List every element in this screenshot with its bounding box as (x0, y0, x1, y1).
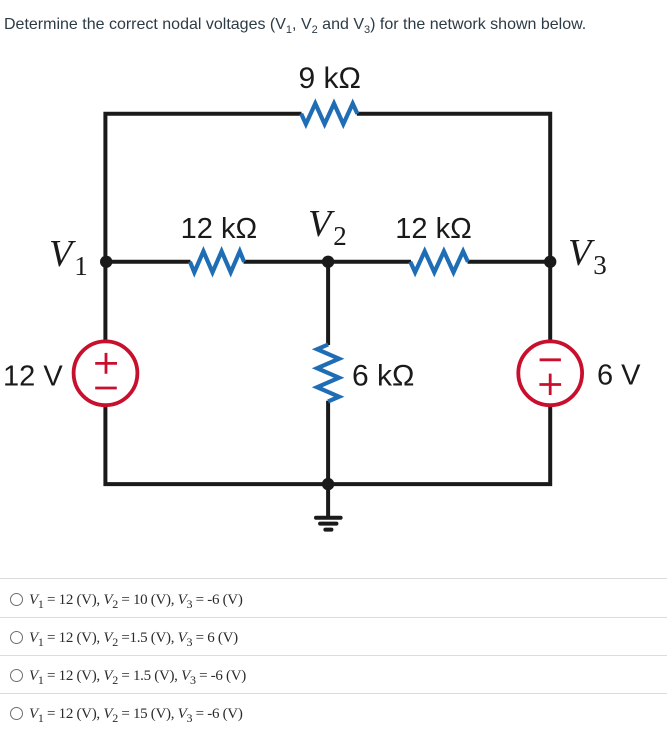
svg-text:6 kΩ: 6 kΩ (352, 360, 414, 393)
resistor 12k left zigzag (190, 251, 244, 272)
voltage source 12V plus (95, 353, 117, 374)
node V1 dot (100, 256, 112, 268)
svg-text:V1: V1 (49, 233, 88, 281)
voltage source 6V circle (518, 341, 582, 405)
label 6 kOhm (352, 360, 414, 393)
wire ground stub (326, 484, 330, 516)
resistor 12k right zigzag (410, 251, 468, 272)
wire top-left corner run (105, 114, 301, 341)
svg-text:12 kΩ: 12 kΩ (395, 213, 472, 245)
node label V1 (49, 233, 88, 281)
wire V2 branch upper (326, 262, 330, 345)
voltage source 6V plus (539, 374, 561, 395)
label 12 V (3, 360, 63, 392)
svg-text:V3: V3 (568, 232, 607, 280)
wire middle left (105, 260, 190, 264)
svg-text:12 kΩ: 12 kΩ (181, 213, 258, 245)
label 12 kOhm right (395, 213, 472, 245)
ground (316, 518, 341, 530)
node V2 dot (322, 256, 334, 268)
svg-text:V2: V2 (308, 203, 347, 251)
wire middle center (244, 260, 412, 264)
node ground junction dot (322, 478, 334, 490)
voltage source 6V minus (540, 358, 561, 361)
voltage source 12V circle (74, 341, 138, 405)
resistor 9k zigzag (301, 104, 357, 125)
wire bottom loop (105, 406, 550, 484)
node V3 dot (544, 256, 556, 268)
node label V2 (308, 203, 347, 251)
svg-text:6 V: 6 V (597, 360, 641, 392)
label 6 V (597, 360, 641, 392)
wire V2 branch lower (326, 401, 330, 484)
voltage source 12V minus (95, 387, 117, 390)
resistor 6k vertical zigzag (317, 345, 339, 402)
svg-text:12 V: 12 V (3, 360, 63, 392)
label 9 kOhm (298, 62, 360, 95)
wire top-right corner run (357, 114, 550, 341)
label 12 kOhm left (181, 213, 258, 245)
wire middle right (468, 260, 551, 264)
svg-text:9 kΩ: 9 kΩ (298, 62, 360, 95)
node label V3 (568, 232, 607, 280)
